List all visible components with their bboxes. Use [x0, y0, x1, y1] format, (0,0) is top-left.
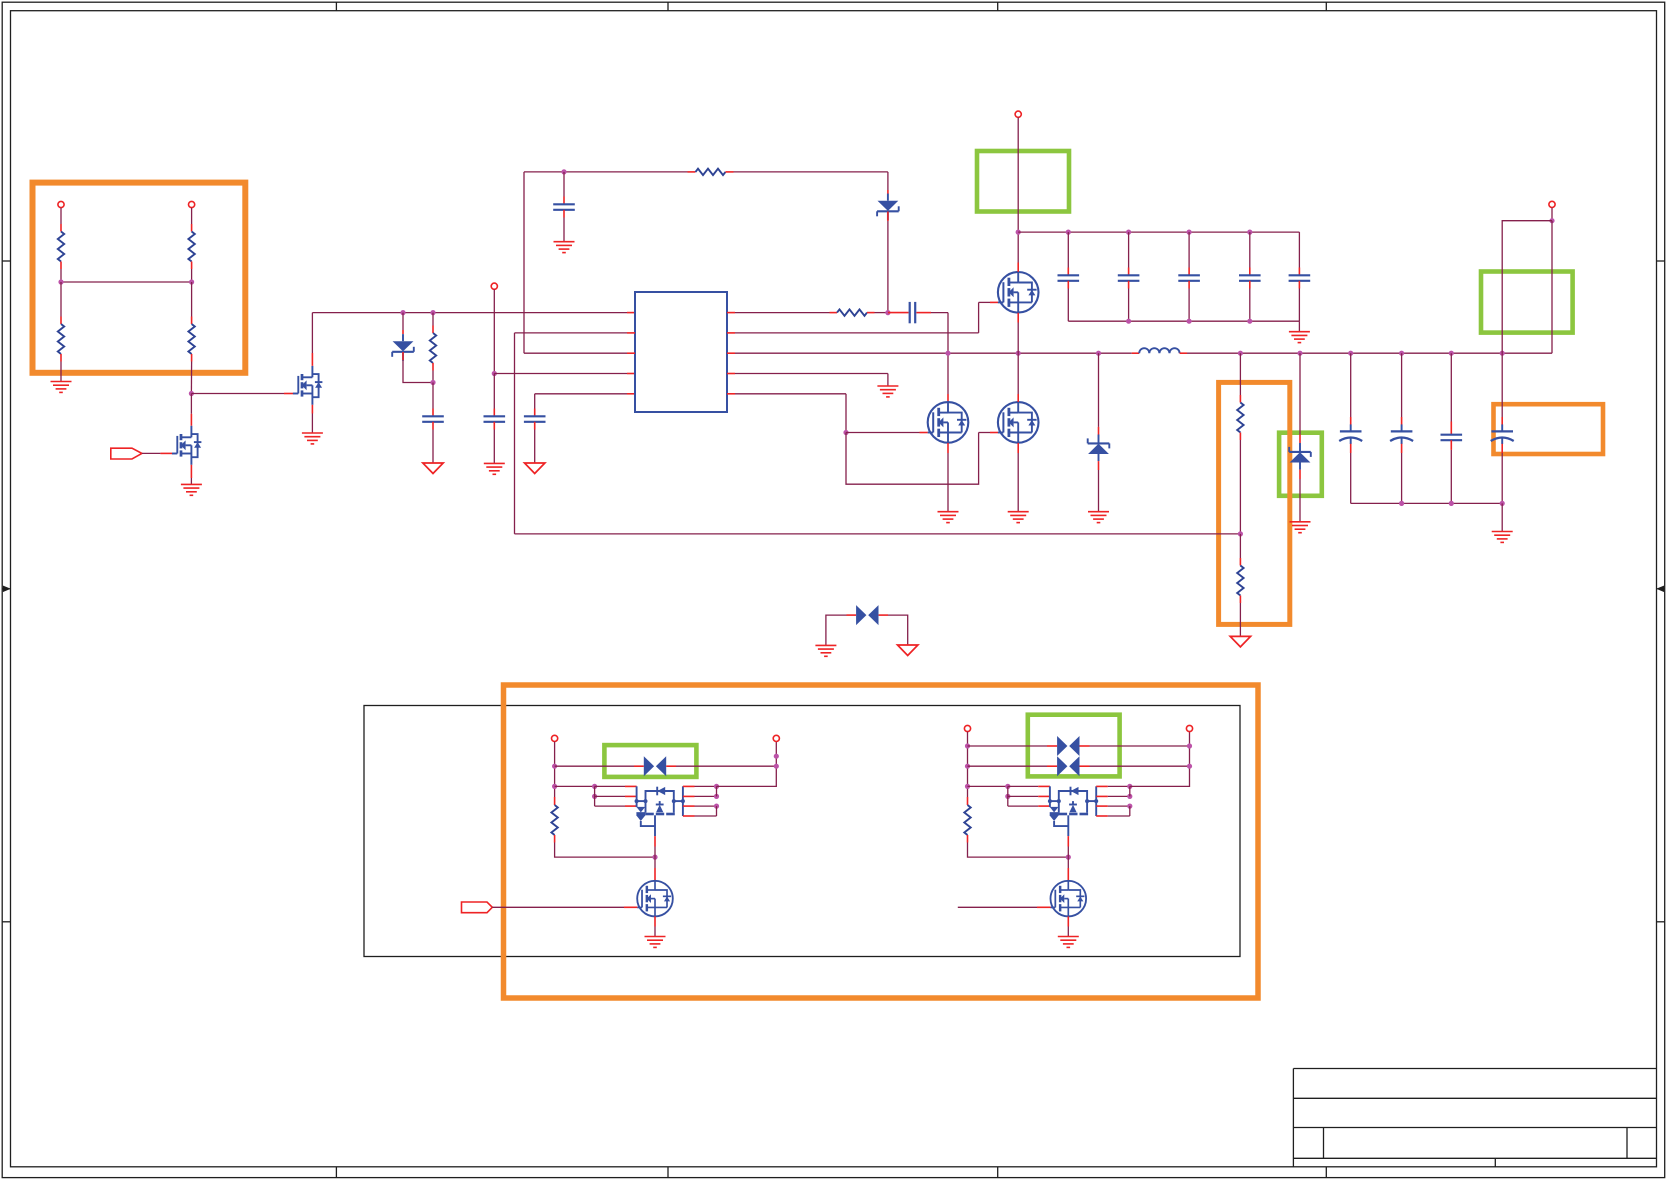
node R5 bottom [430, 380, 435, 385]
zener D4 [1289, 443, 1311, 470]
wire Q4 source to ground [1067, 916, 1069, 926]
wire R1 to node [60, 262, 62, 270]
capacitor C6 (series) [910, 302, 916, 323]
wire to zener D1 [402, 313, 404, 330]
title block [1293, 1069, 1656, 1167]
capacitor C10 [1249, 232, 1251, 267]
wire obus to ground [1501, 503, 1503, 531]
wire D4 to ground [1299, 470, 1301, 479]
node zener out top [1297, 351, 1302, 356]
ground [815, 645, 836, 656]
wire cap bank bottom bus [1068, 320, 1299, 322]
wire output to Q4 [1067, 857, 1069, 868]
ground [1088, 512, 1109, 523]
node pkg left 2 [592, 794, 597, 799]
node fb [1238, 531, 1243, 536]
wire TVS row1 [968, 745, 1048, 747]
power ground [1230, 636, 1250, 647]
wire gate tap to Q1 gate [191, 393, 284, 395]
node pkg left 1 [592, 784, 597, 789]
wire pin5 to C4 [534, 394, 536, 409]
wire feedback run [515, 533, 1241, 535]
ground [302, 433, 323, 444]
ground [645, 937, 666, 948]
wire pin4 ground stub [887, 374, 889, 386]
terminal pin B2 [1186, 725, 1192, 731]
wire to R10 [554, 797, 556, 805]
wire VCC terminal down [493, 289, 495, 373]
border tick top 2 [667, 2, 669, 11]
ground [484, 463, 505, 474]
resistor R6 [696, 169, 726, 175]
capacitor C13 [1401, 353, 1403, 417]
orange highlight box (feedback divider) [1219, 382, 1290, 624]
ground [554, 242, 575, 253]
transistor Q4 [1050, 881, 1086, 917]
capacitor C9 [1188, 232, 1190, 267]
ground [181, 484, 202, 495]
wire R5 to node [432, 363, 434, 371]
node pin4 tap [492, 371, 497, 376]
wire pin1 BST row [727, 312, 735, 314]
wire divider mid link [61, 281, 192, 283]
node bus1 [1126, 319, 1131, 324]
node divider left [58, 279, 63, 284]
TVS D6 [644, 756, 666, 776]
wire LS gate link [846, 433, 979, 485]
node cap2 top [1126, 230, 1131, 235]
wire top loop [524, 171, 688, 173]
wire IC pin5 row [535, 393, 627, 395]
wire row to terminal B2 [1130, 732, 1190, 787]
border arrow right [1656, 586, 1664, 593]
terminal pin VCC [491, 283, 497, 289]
node VIN [1016, 230, 1021, 235]
wire M2 source to ground [947, 443, 949, 453]
border tick bottom 2 [667, 1167, 669, 1178]
power ground [898, 645, 918, 656]
wire pkg2 right verticals [1129, 786, 1131, 796]
wire down to zener D2 [887, 172, 889, 190]
green highlight box (right cell dual TVS) [1028, 715, 1120, 777]
wire to inductor [1132, 352, 1140, 354]
node gate tap [189, 391, 194, 396]
wire pin3 riser [523, 172, 525, 353]
wire to D4 [1299, 353, 1301, 434]
wire bus to ground [1298, 321, 1300, 331]
capacitor C3 [484, 416, 506, 422]
node zener tap [400, 310, 405, 315]
capacitor C14 [1450, 353, 1452, 421]
resistor R5 [430, 333, 436, 363]
node cout3 top [1449, 351, 1454, 356]
wire VOUT down [1551, 208, 1553, 221]
wire TVS row1 [555, 765, 634, 767]
node cout1 top [1348, 351, 1353, 356]
wire R9 to agnd [1239, 596, 1241, 604]
terminal pin VIN [1015, 111, 1021, 117]
node res tap [430, 310, 435, 315]
wire node to C3 [493, 374, 495, 409]
node SW a [945, 351, 950, 356]
border arrow left [3, 586, 11, 593]
orange highlight box (output bulk cap) [1494, 404, 1604, 454]
wire VOUT to rail corner [1551, 221, 1553, 354]
node B1 b [774, 764, 779, 769]
border tick bottom 4 [1325, 1167, 1327, 1178]
wire C5 tap down [563, 172, 565, 197]
wire C2 to agnd [432, 422, 434, 430]
node cap4 top [1247, 230, 1252, 235]
wire row2 to package [555, 785, 595, 787]
transistor M2 low side a [928, 402, 969, 443]
wire TVS row2 [968, 765, 1048, 767]
wire P1 to R1 [60, 208, 62, 224]
wire LS gate riser [845, 394, 847, 433]
node A1 row1 [552, 764, 557, 769]
wire pin5 LS-gate row [727, 393, 735, 395]
wire VIN bus [1018, 231, 1299, 233]
wire flag to Q3 gate [492, 906, 624, 908]
wire C5 to ground [563, 210, 565, 218]
wire D3 to ground [1098, 461, 1100, 470]
terminal pin A1 [552, 735, 558, 741]
node obus1 [1399, 501, 1404, 506]
capacitor C8 [1128, 232, 1130, 267]
ground [1289, 332, 1310, 343]
wire Q3 source to ground [654, 916, 656, 926]
wire R8 to fb node [1239, 433, 1241, 441]
input flag CTRL [462, 902, 493, 913]
terminal pin P2 [189, 201, 195, 207]
wire BST to C6 [888, 312, 909, 314]
wire D2 to BST node [887, 212, 889, 222]
zener D3 catch [1088, 435, 1110, 462]
wire pkg2 right links [1096, 785, 1108, 787]
green highlight box (output sense loop) [1481, 272, 1573, 333]
wire Q1 drain up [311, 353, 313, 366]
node C5 tap [561, 169, 566, 174]
wire node to R3 [60, 282, 62, 317]
wire D1 to node [402, 352, 404, 360]
wire inductor to output rail [1180, 352, 1187, 354]
wire output to Q3 [654, 857, 656, 868]
border tick right upper [1657, 260, 1665, 262]
dual MOSFET package U3 [1048, 786, 1098, 836]
wire SW riser [947, 313, 949, 394]
wire to M2 gate [846, 432, 920, 434]
ground [1492, 532, 1513, 543]
node cell output [652, 855, 657, 860]
wire VIN down [1017, 117, 1019, 232]
transistor Q3 [637, 881, 673, 917]
wire pin4 row [727, 373, 735, 375]
wire row to terminal B1 [717, 742, 777, 787]
transistor Q2 [172, 426, 202, 465]
node pkg2 right 1 [1127, 784, 1132, 789]
node divider right [189, 279, 194, 284]
resistor R2 [188, 232, 194, 262]
wire C4 to agnd [534, 422, 536, 430]
border tick top 1 [335, 2, 337, 11]
wire Q4 gate lead [958, 906, 1037, 908]
wire R6 right [726, 171, 734, 173]
green highlight box (left cell TVS) [604, 745, 696, 777]
capacitor C2 [422, 416, 444, 422]
wire A1 vertical [554, 742, 556, 797]
zener D1 [392, 334, 414, 361]
wire node to C2 [432, 383, 434, 409]
power ground [525, 463, 545, 474]
capacitor C11 [1298, 232, 1300, 267]
capacitor C4 [524, 416, 546, 422]
wire output cap bottom bus [1351, 502, 1503, 504]
wire row3 to package [968, 785, 1008, 787]
node fb top [1238, 351, 1243, 356]
node obus2 [1449, 501, 1454, 506]
capacitor C7 [1067, 232, 1069, 267]
inductor L1 [1139, 348, 1179, 353]
node A1 row2 [552, 784, 557, 789]
border tick top 3 [997, 2, 999, 11]
wire C6 to SW riser [916, 312, 931, 314]
wire IC pin4 row [494, 373, 627, 375]
border tick right lower [1657, 921, 1665, 923]
wire R2 to node [191, 262, 193, 270]
node bus2 [1187, 319, 1192, 324]
node VOUT [1549, 218, 1554, 223]
wire flag to Q2 gate [142, 452, 161, 454]
border tick left lower [2, 921, 10, 923]
wire M3 drain [1017, 353, 1019, 394]
node obus3 [1500, 501, 1505, 506]
orange highlight box (input divider) [33, 183, 246, 373]
wire M1 drain [1017, 232, 1019, 262]
TVS D8 [1057, 756, 1079, 776]
capacitor C5 [553, 204, 575, 210]
capacitor C15 [1501, 353, 1503, 417]
terminal pin B1 [773, 735, 779, 741]
wire to R8 [1239, 353, 1241, 395]
wire to R6 [688, 171, 696, 173]
transistor M3 low side b [998, 402, 1039, 443]
wire fb node to R9 [1239, 534, 1241, 558]
node LS gate [843, 430, 848, 435]
node pkg right 2 [714, 794, 719, 799]
node cap1 top [1066, 230, 1071, 235]
node B2 b [1187, 764, 1192, 769]
orange highlight box (bottom cells) [504, 685, 1259, 998]
wire pin3 row left [524, 352, 627, 354]
node pkg2 right 2 [1127, 794, 1132, 799]
node A2 row1 [965, 743, 970, 748]
resistor R4 [188, 324, 194, 354]
dual MOSFET package U2 [635, 786, 685, 836]
wire node to R4 [191, 282, 193, 317]
input flag EN [111, 448, 142, 459]
resistor R11 [964, 805, 970, 835]
node bus3 [1247, 319, 1252, 324]
wire pkg right links [683, 785, 695, 787]
wire M3 source to ground [1017, 443, 1019, 453]
ground [1008, 512, 1029, 523]
wire SW to catch diode [1098, 353, 1100, 427]
node cout2 top [1399, 351, 1404, 356]
ground [877, 386, 898, 397]
wire R3 to ground [60, 354, 62, 362]
resistor R7 [837, 309, 867, 315]
wire feedback drop [514, 333, 516, 534]
ground [51, 382, 72, 393]
wire pkg output down [654, 836, 656, 846]
wire Q1 source to ground [311, 405, 313, 414]
resistor R8 [1237, 403, 1243, 433]
wire A2 vertical [967, 732, 969, 797]
node SW c [1096, 351, 1101, 356]
node B1 a [774, 754, 779, 759]
transistor M1 high side [998, 272, 1039, 313]
terminal pin VOUT [1549, 201, 1555, 207]
wire pin2 row left [515, 332, 628, 334]
node B2 a [1187, 743, 1192, 748]
wire pkg2 left links [1007, 786, 1009, 806]
wire R4 to gate node [191, 354, 193, 362]
wire tap down to Q2 drain [190, 394, 192, 414]
wire R10 to output node [554, 835, 556, 843]
wire pkg right verticals [716, 786, 718, 796]
wire pkg left links [594, 786, 596, 806]
wire to R11 [967, 797, 969, 805]
resistor R1 [58, 232, 64, 262]
wire pin2 HS-gate row [727, 332, 735, 334]
node cap3 top [1187, 230, 1192, 235]
TVS D5 [856, 605, 878, 625]
node pkg right 1 [714, 784, 719, 789]
power ground [423, 463, 443, 474]
node SW b [1016, 351, 1021, 356]
border tick top 4 [1325, 2, 1327, 11]
ground [1058, 937, 1079, 948]
node cout4 top [1500, 351, 1505, 356]
node cell2 output [1066, 855, 1071, 860]
wire HS gate riser [978, 302, 980, 333]
wire VOUT sense jumper [1502, 221, 1552, 354]
resistor R10 [551, 805, 557, 835]
wire R11 to output node [967, 835, 969, 843]
wire C3 to ground [493, 422, 495, 430]
capacitor C12 [1350, 353, 1352, 417]
wire M1 source [1017, 313, 1019, 323]
wire to R5 [432, 313, 434, 326]
thin enclosure rectangle around bottom cells [364, 706, 1240, 957]
border tick left upper [2, 260, 10, 262]
wire Q2 source to ground [190, 465, 192, 478]
node pkg2 right 3 [1127, 804, 1132, 809]
wire pin3 SW row [727, 352, 735, 354]
wire TVS right [879, 614, 888, 616]
node A2 row2 [965, 764, 970, 769]
resistor R9 [1237, 566, 1243, 596]
ground [938, 512, 959, 523]
border tick bottom 3 [997, 1167, 999, 1178]
ground [1290, 522, 1311, 533]
wire R7 to node [867, 312, 875, 314]
wire pkg2 output down [1067, 836, 1069, 846]
transistor Q1 [293, 366, 323, 405]
node pkg2 left 2 [1005, 794, 1010, 799]
border tick bottom 1 [335, 1167, 337, 1178]
wire VCC rail to IC pin1 [312, 312, 627, 314]
TVS D7 [1057, 736, 1079, 756]
terminal pin P1 [58, 201, 64, 207]
zener D2 [877, 194, 899, 221]
node BST [885, 310, 890, 315]
node pkg2 left 1 [1005, 784, 1010, 789]
green highlight box (input fuse area) [977, 151, 1069, 212]
resistor R3 [58, 324, 64, 354]
green highlight box (output zener) [1279, 433, 1322, 496]
node A2 row3 [965, 784, 970, 789]
IC U1 [635, 292, 727, 412]
wire TVS left [826, 615, 847, 645]
node pkg right 3 [714, 804, 719, 809]
terminal pin A2 [964, 725, 970, 731]
wire P2 to R2 [191, 208, 193, 224]
